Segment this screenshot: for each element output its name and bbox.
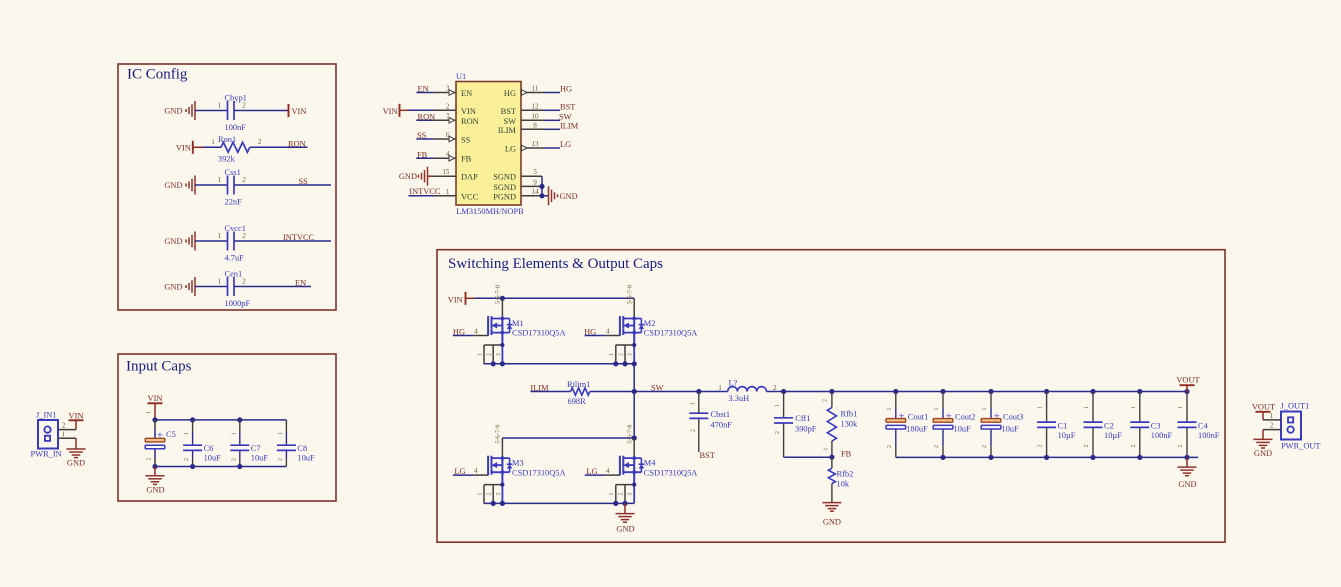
svg-text:CSD17310Q5A: CSD17310Q5A — [512, 468, 566, 477]
svg-text:1: 1 — [218, 176, 222, 184]
svg-text:2: 2 — [1178, 444, 1184, 447]
svg-text:HG: HG — [560, 85, 572, 94]
svg-text:Cbst1: Cbst1 — [711, 410, 731, 419]
svg-text:1: 1 — [609, 493, 615, 496]
svg-text:1: 1 — [184, 432, 190, 435]
svg-text:5-6-7-8: 5-6-7-8 — [495, 425, 502, 444]
svg-text:10uF: 10uF — [1002, 425, 1020, 434]
svg-text:2: 2 — [1270, 422, 1274, 430]
svg-text:C8: C8 — [297, 444, 307, 453]
svg-text:4: 4 — [606, 467, 610, 475]
svg-text:10uF: 10uF — [251, 454, 269, 463]
svg-text:10uF: 10uF — [297, 454, 315, 463]
svg-text:GND: GND — [616, 524, 634, 533]
svg-text:GND: GND — [67, 459, 85, 468]
svg-text:EN: EN — [295, 279, 306, 288]
svg-text:1: 1 — [62, 430, 66, 438]
svg-text:+: + — [899, 412, 905, 423]
svg-text:1: 1 — [446, 188, 450, 196]
svg-text:CSD17310Q5A: CSD17310Q5A — [644, 329, 698, 338]
svg-text:1: 1 — [718, 384, 722, 392]
svg-text:100nF: 100nF — [1151, 431, 1173, 440]
svg-text:390pF: 390pF — [795, 424, 817, 433]
svg-text:PWR_OUT: PWR_OUT — [1281, 442, 1321, 451]
svg-text:SGND: SGND — [493, 173, 516, 182]
svg-text:VCC: VCC — [461, 192, 479, 201]
svg-text:3: 3 — [496, 353, 502, 356]
svg-text:FB: FB — [461, 155, 472, 164]
svg-text:LG: LG — [560, 140, 571, 149]
svg-text:2: 2 — [242, 277, 246, 285]
svg-text:4: 4 — [606, 327, 610, 335]
svg-text:VIN: VIN — [461, 107, 476, 116]
svg-text:RON: RON — [418, 113, 436, 122]
svg-text:2: 2 — [982, 445, 988, 448]
svg-text:1: 1 — [231, 432, 237, 435]
svg-text:11: 11 — [532, 85, 539, 93]
svg-text:2: 2 — [231, 458, 237, 461]
svg-text:Rfb2: Rfb2 — [837, 470, 854, 479]
svg-text:2: 2 — [934, 445, 940, 448]
svg-text:Cout2: Cout2 — [955, 413, 975, 422]
svg-text:12: 12 — [531, 102, 539, 110]
svg-text:L?: L? — [729, 379, 738, 388]
svg-text:470nF: 470nF — [711, 420, 733, 429]
svg-text:392k: 392k — [218, 154, 236, 163]
svg-text:Ron1: Ron1 — [218, 135, 236, 144]
svg-text:FB: FB — [841, 450, 852, 459]
svg-text:2: 2 — [242, 176, 246, 184]
svg-text:100nF: 100nF — [225, 123, 247, 132]
svg-text:DAP: DAP — [461, 173, 478, 182]
svg-text:3.3uH: 3.3uH — [729, 394, 750, 403]
svg-text:2: 2 — [823, 399, 829, 402]
svg-text:BST: BST — [700, 451, 715, 460]
svg-text:C7: C7 — [251, 444, 261, 453]
svg-text:GND: GND — [1254, 449, 1272, 458]
svg-text:1000pF: 1000pF — [225, 299, 251, 308]
svg-text:1: 1 — [1038, 406, 1044, 409]
svg-text:2: 2 — [446, 102, 450, 110]
svg-text:PWR_IN: PWR_IN — [31, 450, 62, 459]
svg-text:SW: SW — [503, 117, 516, 126]
svg-text:5-6-7-8: 5-6-7-8 — [627, 425, 634, 444]
svg-text:M2: M2 — [644, 319, 656, 328]
svg-text:2: 2 — [258, 138, 262, 146]
svg-text:HG: HG — [453, 327, 465, 336]
svg-text:RON: RON — [288, 140, 306, 149]
svg-text:1: 1 — [477, 353, 483, 356]
svg-text:3: 3 — [628, 493, 634, 496]
svg-text:2: 2 — [242, 232, 246, 240]
svg-text:1: 1 — [218, 232, 222, 240]
svg-text:4.7uF: 4.7uF — [225, 254, 245, 263]
svg-text:1: 1 — [278, 432, 284, 435]
svg-text:10uF: 10uF — [204, 454, 222, 463]
svg-text:ILIM: ILIM — [560, 122, 579, 131]
svg-text:2: 2 — [618, 353, 624, 356]
svg-text:VIN: VIN — [448, 295, 463, 304]
svg-text:C4: C4 — [1198, 421, 1209, 430]
svg-text:PGND: PGND — [493, 192, 516, 201]
svg-text:GND: GND — [164, 181, 182, 190]
svg-text:1: 1 — [218, 277, 222, 285]
svg-text:Cff1: Cff1 — [795, 414, 810, 423]
svg-text:4: 4 — [474, 327, 478, 335]
svg-text:2: 2 — [184, 458, 190, 461]
svg-text:2: 2 — [242, 101, 246, 109]
svg-text:2: 2 — [62, 422, 66, 430]
svg-text:VIN: VIN — [383, 107, 398, 116]
svg-text:1: 1 — [218, 101, 222, 109]
svg-text:C3: C3 — [1151, 421, 1161, 430]
svg-text:J_IN1: J_IN1 — [36, 411, 56, 420]
svg-text:EN: EN — [418, 85, 429, 94]
svg-text:Cout3: Cout3 — [1003, 413, 1023, 422]
svg-text:EN: EN — [461, 89, 472, 98]
svg-text:Cout1: Cout1 — [908, 413, 928, 422]
svg-text:CSD17310Q5A: CSD17310Q5A — [644, 468, 698, 477]
svg-text:2: 2 — [1038, 444, 1044, 447]
svg-text:SS: SS — [299, 177, 309, 186]
svg-text:J_OUT1: J_OUT1 — [1281, 402, 1310, 411]
svg-text:130k: 130k — [841, 419, 859, 428]
svg-text:VOUT: VOUT — [1176, 376, 1199, 385]
svg-text:2: 2 — [1084, 444, 1090, 447]
svg-text:GND: GND — [560, 192, 578, 201]
svg-text:2: 2 — [775, 431, 781, 434]
svg-text:1: 1 — [1178, 406, 1184, 409]
svg-text:Rilim1: Rilim1 — [567, 380, 590, 389]
svg-text:2: 2 — [487, 493, 493, 496]
svg-text:RON: RON — [461, 117, 479, 126]
svg-text:10µF: 10µF — [1058, 431, 1076, 440]
svg-text:2: 2 — [1131, 444, 1137, 447]
svg-text:+: + — [994, 412, 1000, 423]
svg-text:Rfb1: Rfb1 — [841, 410, 858, 419]
svg-text:2: 2 — [147, 457, 153, 460]
svg-text:1: 1 — [147, 411, 153, 414]
svg-text:VIN: VIN — [292, 107, 307, 116]
svg-text:1: 1 — [477, 493, 483, 496]
svg-text:LG: LG — [454, 467, 465, 476]
svg-text:U1: U1 — [456, 72, 466, 81]
svg-text:2: 2 — [690, 429, 696, 432]
svg-text:GND: GND — [399, 172, 417, 181]
svg-text:10µF: 10µF — [1104, 431, 1122, 440]
svg-text:1: 1 — [982, 407, 988, 410]
svg-text:100nF: 100nF — [1198, 431, 1220, 440]
svg-text:10uF: 10uF — [954, 425, 972, 434]
svg-text:1: 1 — [934, 407, 940, 410]
svg-text:BST: BST — [501, 107, 516, 116]
svg-text:HG: HG — [584, 327, 596, 336]
svg-text:698R: 698R — [568, 397, 587, 406]
svg-text:8: 8 — [533, 121, 537, 129]
svg-text:1: 1 — [824, 447, 830, 450]
svg-text:INTVCC: INTVCC — [283, 233, 315, 242]
svg-text:180uF: 180uF — [906, 425, 928, 434]
svg-text:2: 2 — [773, 384, 777, 392]
svg-text:Cvcc1: Cvcc1 — [225, 224, 246, 233]
svg-text:5-6-7-8: 5-6-7-8 — [495, 285, 502, 304]
svg-text:C1: C1 — [1058, 421, 1068, 430]
svg-text:1: 1 — [211, 138, 215, 146]
svg-text:ILIM: ILIM — [498, 126, 517, 135]
svg-text:GND: GND — [164, 107, 182, 116]
svg-text:SGND: SGND — [493, 183, 516, 192]
svg-text:Cen1: Cen1 — [225, 269, 243, 278]
svg-text:LG: LG — [586, 467, 597, 476]
svg-text:3: 3 — [628, 353, 634, 356]
svg-text:M4: M4 — [644, 459, 656, 468]
svg-text:1: 1 — [1131, 406, 1137, 409]
svg-text:C6: C6 — [204, 444, 214, 453]
svg-text:VIN: VIN — [148, 394, 163, 403]
svg-text:SS: SS — [417, 131, 427, 140]
svg-text:Switching Elements & Output Ca: Switching Elements & Output Caps — [448, 256, 663, 272]
svg-text:2: 2 — [487, 353, 493, 356]
svg-text:1: 1 — [887, 407, 893, 410]
svg-text:LM3150MH/NOPB: LM3150MH/NOPB — [456, 207, 524, 216]
svg-text:C2: C2 — [1104, 421, 1114, 430]
svg-text:22nF: 22nF — [225, 198, 243, 207]
svg-text:9: 9 — [533, 178, 537, 186]
svg-text:VOUT: VOUT — [1252, 402, 1275, 411]
svg-text:14: 14 — [531, 188, 539, 196]
svg-text:GND: GND — [164, 237, 182, 246]
svg-text:Input Caps: Input Caps — [126, 359, 192, 375]
svg-text:GND: GND — [1178, 480, 1196, 489]
svg-text:GND: GND — [164, 283, 182, 292]
svg-text:Cbyp1: Cbyp1 — [225, 93, 247, 102]
svg-text:+: + — [157, 431, 163, 442]
svg-text:C5: C5 — [166, 430, 176, 439]
svg-text:2: 2 — [278, 458, 284, 461]
svg-text:15: 15 — [442, 168, 450, 176]
svg-text:FB: FB — [417, 150, 428, 159]
svg-text:1: 1 — [1270, 412, 1274, 420]
svg-text:10k: 10k — [837, 479, 850, 488]
svg-text:2: 2 — [618, 493, 624, 496]
svg-text:10: 10 — [531, 112, 539, 120]
svg-text:M1: M1 — [512, 319, 524, 328]
svg-text:M3: M3 — [512, 459, 524, 468]
svg-text:5: 5 — [533, 168, 537, 176]
svg-text:2: 2 — [887, 445, 893, 448]
svg-text:SW: SW — [559, 113, 572, 122]
svg-text:13: 13 — [531, 140, 539, 148]
svg-text:GND: GND — [823, 517, 841, 526]
svg-text:Css1: Css1 — [225, 168, 241, 177]
svg-text:3: 3 — [496, 493, 502, 496]
svg-text:5-6-7-8: 5-6-7-8 — [627, 285, 634, 304]
svg-text:4: 4 — [474, 467, 478, 475]
svg-text:INTVCC: INTVCC — [409, 187, 441, 196]
svg-text:HG: HG — [504, 89, 516, 98]
svg-text:VIN: VIN — [69, 411, 84, 420]
svg-text:1: 1 — [690, 402, 696, 405]
svg-text:CSD17310Q5A: CSD17310Q5A — [512, 329, 566, 338]
svg-text:1: 1 — [1084, 406, 1090, 409]
svg-text:1: 1 — [609, 353, 615, 356]
svg-text:IC Config: IC Config — [127, 67, 188, 83]
svg-text:+: + — [946, 412, 952, 423]
svg-text:LG: LG — [505, 145, 516, 154]
svg-text:SS: SS — [461, 136, 471, 145]
svg-text:GND: GND — [146, 486, 164, 495]
svg-text:VIN: VIN — [176, 143, 191, 152]
svg-text:BST: BST — [560, 103, 575, 112]
svg-text:1: 1 — [775, 404, 781, 407]
